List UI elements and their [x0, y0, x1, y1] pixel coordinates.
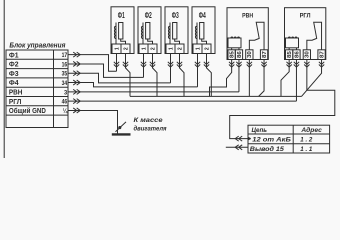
svg-text:30: 30 — [305, 51, 311, 58]
injector Ф4 pin 1 box — [193, 44, 202, 54]
relay РВН coil — [228, 38, 241, 48]
relay РВН pin 85 box — [228, 50, 235, 60]
injector Ф4 pin1 plug connector — [195, 62, 200, 67]
svg-text:Ф2: Ф2 — [145, 11, 152, 20]
address table outline — [248, 125, 330, 153]
relay РВН pin85 stub wire — [231, 60, 233, 68]
injector Ф4 internal wire to pin 2 — [202, 39, 207, 44]
svg-text:2: 2 — [123, 47, 129, 50]
svg-text:Ф2: Ф2 — [9, 60, 19, 69]
svg-text:Общий GND: Общий GND — [9, 106, 47, 115]
injector Ф3 pin2 stub wire — [179, 54, 181, 68]
wire РГЛ pin85 feed — [281, 67, 289, 96]
injector Ф1 pin 2 box — [121, 44, 130, 54]
injector Ф4 pin2 plug connector — [204, 62, 209, 67]
relay РВН pin30 stub wire — [248, 60, 250, 68]
address table row lines — [248, 134, 330, 144]
injector Ф3 coil — [168, 23, 170, 45]
injector Ф1 pin 1 box — [112, 44, 121, 54]
injector Ф3 internal wire to pin 2 — [175, 39, 180, 44]
wire ECU 17 to injector Ф1 pin1 — [68, 55, 117, 72]
injector Ф1 pin2 stub wire — [125, 54, 127, 68]
connector chevrons on ECU wire Общий GND — [73, 108, 80, 113]
wire РВН pin87 to +12 bus — [259, 67, 264, 96]
injector Ф3 valve body — [173, 23, 177, 40]
connector chevrons on ECU wire Ф3 — [73, 71, 80, 76]
svg-text:86: 86 — [237, 51, 243, 58]
svg-text:Ф1: Ф1 — [118, 11, 125, 20]
injector Ф4 body — [192, 7, 215, 54]
injector Ф4 coil — [195, 23, 197, 45]
relay РГЛ pin30 stub wire — [306, 60, 308, 68]
wire ECU 3 to relay РВН pin86 — [68, 67, 239, 92]
injector Ф2 coil — [141, 23, 143, 45]
wire РВН pin30 to +12 bus — [248, 67, 250, 96]
svg-text:Вывод 15: Вывод 15 — [250, 145, 284, 153]
svg-text:К массе: К массе — [134, 117, 163, 124]
svg-text:Адрес: Адрес — [300, 126, 322, 134]
ground bar — [112, 133, 131, 135]
injector Ф4 pin2 stub wire — [206, 54, 208, 68]
wire ECU 16 to injector Ф2 pin1 — [68, 64, 144, 77]
relay РВН pin87 plug connector — [261, 62, 266, 67]
ground clamp dot — [118, 126, 121, 129]
svg-text:87: 87 — [262, 51, 268, 58]
connector chevrons on ECU wire Ф1 — [73, 52, 80, 57]
wire Вывод 15 stub — [226, 146, 248, 148]
address table column divider — [292, 125, 294, 153]
wire injector Ф4 pin2 drop to +12 bus — [207, 67, 212, 96]
injector Ф1 body — [111, 7, 134, 54]
injector Ф4 pin1 stub wire — [197, 54, 199, 68]
relay РВН coil teeth — [231, 37, 240, 38]
injector Ф3 pin 2 box — [175, 44, 184, 54]
svg-text:2: 2 — [150, 47, 156, 50]
wire injector Ф2 pin2 drop to +12 bus — [153, 67, 158, 96]
injector Ф1 pin2 plug connector — [123, 62, 128, 67]
relay РГЛ pin30 plug connector — [304, 62, 309, 67]
svg-text:3: 3 — [64, 89, 68, 96]
injector Ф1 valve body — [119, 23, 123, 40]
svg-text:РГЛ: РГЛ — [300, 13, 311, 20]
injector Ф2 valve body — [146, 23, 150, 40]
ground clamp diagonal — [116, 122, 127, 132]
svg-text:Ф4: Ф4 — [9, 78, 20, 87]
svg-text:30: 30 — [247, 51, 253, 58]
relay РГЛ body — [285, 8, 326, 60]
wire ECU 34 to injector Ф4 pin1 — [68, 67, 198, 87]
svg-text:Ф3: Ф3 — [9, 69, 19, 78]
injector Ф2 pin 1 box — [139, 44, 148, 54]
connector chevrons on Вывод 15 wire — [235, 145, 242, 150]
svg-text:Ф1: Ф1 — [9, 50, 19, 59]
+12 injector supply bus — [130, 95, 302, 97]
injector Ф2 pin 2 box — [148, 44, 157, 54]
injector Ф3 pin1 plug connector — [168, 62, 173, 67]
injector Ф2 pin2 plug connector — [150, 62, 155, 67]
svg-text:86: 86 — [294, 51, 300, 58]
wire injector Ф1 pin2 drop to +12 bus — [126, 67, 131, 96]
relay РГЛ contact — [307, 22, 322, 50]
svg-text:87: 87 — [319, 51, 325, 58]
connector chevrons on ECU wire РГЛ — [73, 99, 80, 104]
connector chevrons on +12 battery wire — [235, 136, 242, 141]
relay РВН pin 87 box — [260, 50, 267, 60]
svg-text:1 . 1: 1 . 1 — [300, 146, 312, 153]
injector Ф1 pin1 plug connector — [114, 62, 119, 67]
svg-text:16: 16 — [62, 61, 68, 68]
svg-text:1 . 2: 1 . 2 — [300, 137, 312, 144]
wire РГЛ pin87 to +12 bus — [302, 67, 322, 96]
injector Ф3 body — [165, 7, 188, 54]
svg-text:Цепь: Цепь — [252, 127, 268, 134]
injector Ф2 pin1 stub wire — [143, 54, 145, 68]
injector Ф4 pin 2 box — [202, 44, 211, 54]
injector Ф3 pin1 stub wire — [170, 54, 172, 68]
injector Ф2 pin2 stub wire — [152, 54, 154, 68]
svg-text:46: 46 — [62, 99, 68, 106]
injector Ф3 pin2 plug connector — [177, 62, 182, 67]
svg-text:2: 2 — [204, 47, 210, 50]
svg-text:85: 85 — [229, 51, 235, 58]
svg-text:Ф4: Ф4 — [199, 11, 206, 20]
injector Ф2 body — [138, 7, 161, 54]
connector chevrons on ECU wire РВН — [73, 89, 80, 94]
arrow into +12 cell — [248, 137, 251, 140]
svg-text:¼: ¼ — [63, 107, 68, 115]
relay РВН contact — [249, 22, 264, 50]
svg-text:Ф3: Ф3 — [172, 11, 179, 20]
relay РГЛ coil — [286, 38, 299, 48]
relay РГЛ pin87 plug connector — [319, 62, 324, 67]
relay РГЛ coil legs — [289, 48, 296, 50]
ECU table row lines — [6, 59, 68, 115]
relay РВН pin 86 box — [235, 50, 242, 60]
svg-text:РВН: РВН — [242, 13, 253, 20]
svg-text:2: 2 — [177, 47, 183, 50]
wire ECU 46 to relay РГЛ pin86 — [68, 67, 296, 101]
injector Ф1 internal wire to pin 2 — [121, 39, 126, 44]
relay РГЛ pin 85 box — [286, 50, 293, 60]
wire injector Ф3 pin2 drop to +12 bus — [180, 67, 185, 96]
connector chevrons on ECU wire Ф4 — [73, 80, 80, 85]
svg-text:12 от АкБ: 12 от АкБ — [252, 137, 291, 144]
relay РВН pin86 plug connector — [236, 62, 241, 67]
relay РВН pin87 stub wire — [263, 60, 265, 68]
injector Ф1 pin1 stub wire — [116, 54, 118, 68]
svg-text:РВН: РВН — [9, 87, 23, 96]
svg-text:РГЛ: РГЛ — [9, 97, 22, 106]
svg-text:1: 1 — [114, 47, 120, 50]
relay РГЛ pin 87 box — [318, 50, 325, 60]
relay РГЛ pin85 plug connector — [286, 62, 291, 67]
ECU table column divider — [53, 50, 55, 128]
svg-text:Блок управления: Блок управления — [9, 42, 65, 49]
svg-text:1: 1 — [195, 47, 201, 50]
wire РГЛ pin30 to +12 battery rail — [230, 67, 335, 139]
sheet frame left border — [3, 0, 5, 158]
ECU connector table outline — [6, 50, 68, 128]
relay РВН body — [227, 8, 268, 60]
relay РГЛ coil teeth — [288, 37, 297, 38]
injector Ф2 pin1 plug connector — [141, 62, 146, 67]
connector chevrons on ECU wire Ф2 — [73, 61, 80, 66]
wire ECU 35 to injector Ф3 pin1 — [68, 67, 171, 83]
wire ECU ground to engine mass — [68, 110, 118, 133]
relay РГЛ pin 86 box — [293, 50, 300, 60]
relay РГЛ pin85 stub wire — [288, 60, 290, 68]
svg-text:двигателя: двигателя — [134, 124, 167, 132]
relay РГЛ pin 30 box — [303, 50, 310, 60]
relay РВН pin 30 box — [246, 50, 253, 60]
injector Ф4 valve body — [200, 23, 204, 40]
svg-text:1: 1 — [141, 47, 147, 50]
injector Ф2 internal wire to pin 2 — [148, 39, 153, 44]
svg-text:17: 17 — [62, 52, 68, 59]
relay РВН pin85 plug connector — [229, 62, 234, 67]
relay РВН coil legs — [232, 48, 239, 50]
svg-text:34: 34 — [62, 80, 68, 87]
relay РГЛ pin86 stub wire — [295, 60, 297, 68]
relay РВН pin30 plug connector — [247, 62, 252, 67]
injector Ф3 pin 1 box — [166, 44, 175, 54]
relay РГЛ pin86 plug connector — [294, 62, 299, 67]
injector Ф1 coil — [114, 23, 116, 45]
relay РГЛ pin87 stub wire — [321, 60, 323, 68]
svg-text:1: 1 — [168, 47, 174, 50]
svg-text:85: 85 — [287, 51, 293, 58]
wire РВН pin85 feed — [210, 67, 232, 96]
relay РВН pin86 stub wire — [238, 60, 240, 68]
svg-text:35: 35 — [62, 71, 68, 78]
